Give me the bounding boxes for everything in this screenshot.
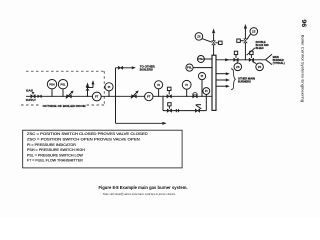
svg-text:PSL: PSL: [61, 82, 66, 86]
svg-text:PI: PI: [157, 83, 160, 87]
flow arrow on burner line: [225, 58, 229, 61]
svg-text:PSH = PRESSURE SWITCH HIGH: PSH = PRESSURE SWITCH HIGH: [27, 148, 86, 152]
bleed valve (double block and bleed): [237, 24, 258, 60]
svg-text:ZSC = POSITION SWITCH CLOSED P: ZSC = POSITION SWITCH CLOSED PROVES VALV…: [27, 132, 148, 136]
instrument PI3: [182, 80, 191, 96]
instrument PSH2 (header): [197, 56, 212, 63]
svg-text:FT = FUEL FLOW TRANSMITTER: FT = FUEL FLOW TRANSMITTER: [27, 159, 84, 163]
svg-text:FT: FT: [95, 95, 99, 99]
bypass break ticks: [176, 109, 178, 112]
main burner symbol: [266, 54, 272, 64]
instrument PI2: [155, 81, 163, 97]
svg-text:BOILERS: BOILERS: [140, 67, 153, 71]
instrument PSL2 (header): [186, 64, 212, 71]
instrument PSL (supply): [58, 80, 67, 97]
instrument PI4 (header): [198, 73, 205, 97]
svg-text:PSH: PSH: [49, 82, 54, 86]
svg-text:ZS: ZS: [197, 34, 201, 38]
instrument PI1: [105, 83, 113, 97]
block valve B1: [234, 51, 242, 70]
bypass regulator PRV3: [195, 105, 201, 113]
wire: branch to other boilers: [116, 66, 136, 96]
gas header: [212, 55, 216, 110]
svg-text:BLEED: BLEED: [256, 47, 264, 50]
wire: main gas supply line: [26, 95, 212, 97]
svg-text:PSL = PRESSURE SWITCH LOW: PSL = PRESSURE SWITCH LOW: [27, 153, 84, 157]
instrument on bypass riser: [203, 88, 210, 97]
bypass solenoid valve: [167, 103, 171, 113]
svg-text:PSL: PSL: [187, 66, 192, 70]
junction dots: [51, 59, 246, 97]
node: main burner label: [273, 56, 285, 65]
svg-text:PI: PI: [205, 89, 208, 93]
svg-text:(TYPICAL): (TYPICAL): [273, 62, 285, 65]
block valve B2: [249, 51, 263, 70]
node: double block and bleed label: [247, 41, 269, 55]
valve V2: [38, 95, 42, 98]
instrument FT1: [92, 92, 101, 101]
instrument FT2: [145, 92, 153, 100]
svg-text:Boiler Control Systems Enginee: Boiler Control Systems Engineering: [301, 35, 305, 103]
svg-text:FT: FT: [147, 95, 151, 99]
svg-text:ZS: ZS: [252, 29, 256, 33]
svg-text:PI: PI: [201, 74, 204, 78]
svg-text:PSH: PSH: [198, 57, 203, 61]
wire: branch to igniters (arrow): [116, 96, 167, 125]
svg-text:BURNERS: BURNERS: [238, 80, 251, 83]
wire: bypass loop: [163, 96, 206, 110]
svg-text:OUTSIDE OF BOILER ROOM: OUTSIDE OF BOILER ROOM: [43, 104, 87, 108]
instrument ZS (header vent): [195, 33, 212, 43]
instrument PSH (supply): [47, 80, 56, 97]
svg-text:Note: All shutoff valves must: Note: All shutoff valves must have switc…: [102, 192, 176, 196]
svg-text:PI = PRESSURE INDICATOR: PI = PRESSURE INDICATOR: [27, 143, 77, 147]
legend box: [23, 130, 182, 168]
svg-text:ZSO = POSITION SWITCH OPEN PRO: ZSO = POSITION SWITCH OPEN PROVES VALVE …: [27, 138, 140, 142]
node: gas supply label: [26, 89, 36, 102]
svg-text:96: 96: [300, 19, 306, 28]
regulator PRV1: [66, 91, 74, 99]
valve V1 manual shutoff: [31, 93, 35, 99]
svg-text:PI: PI: [108, 85, 111, 89]
control valve CV1: [193, 93, 198, 98]
svg-text:GAS: GAS: [26, 89, 33, 93]
svg-text:ZS: ZS: [236, 65, 240, 69]
svg-text:ZS: ZS: [258, 65, 262, 69]
svg-text:PI: PI: [185, 83, 188, 87]
header vent valve assembly: [212, 28, 222, 55]
boundary: outside of boiler room (dashed): [21, 71, 104, 105]
node: to other boilers label: [140, 64, 155, 71]
node: other main burners label: [238, 77, 255, 83]
svg-text:Figure 8-8 Example main gas bu: Figure 8-8 Example main gas burner syste…: [99, 185, 188, 190]
wire: burner branch line: [216, 59, 266, 61]
regulator PRV2: [131, 91, 139, 99]
relief vent valves: [86, 80, 95, 96]
other main burners arrows: [216, 72, 230, 88]
solenoid shutoff valve SV1: [167, 87, 172, 98]
legend text: [27, 132, 148, 163]
brace for other main burners: [231, 69, 235, 90]
